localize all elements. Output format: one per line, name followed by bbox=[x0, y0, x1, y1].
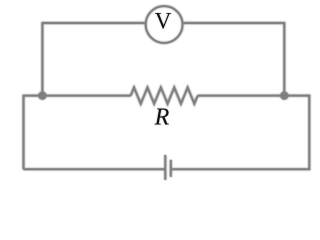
wire: main loop top-right segment + right edge + bottom-right segment bbox=[172, 96, 309, 170]
svg-text:R: R bbox=[154, 104, 170, 130]
battery long plate (positive) bbox=[164, 155, 166, 180]
node: left junction dot bbox=[39, 92, 47, 100]
svg-text:V: V bbox=[155, 9, 172, 34]
wire: voltmeter branch top horizontal right + right vertical bbox=[184, 23, 285, 96]
wire: voltmeter branch left vertical + top horizontal left bbox=[42, 23, 144, 96]
battery short plate (negative) bbox=[170, 160, 172, 177]
wire: main loop left edge + top-left segment bbox=[24, 96, 131, 170]
crisp core layer bbox=[24, 6, 310, 180]
soft halo layer (blurred copy of the whole schematic) bbox=[24, 6, 310, 180]
voltmeter U1 circle bbox=[146, 6, 183, 43]
resistor R zigzag bbox=[131, 87, 198, 103]
node: right junction dot bbox=[280, 92, 288, 100]
wire: bottom-left segment from battery to left edge bbox=[24, 168, 166, 170]
